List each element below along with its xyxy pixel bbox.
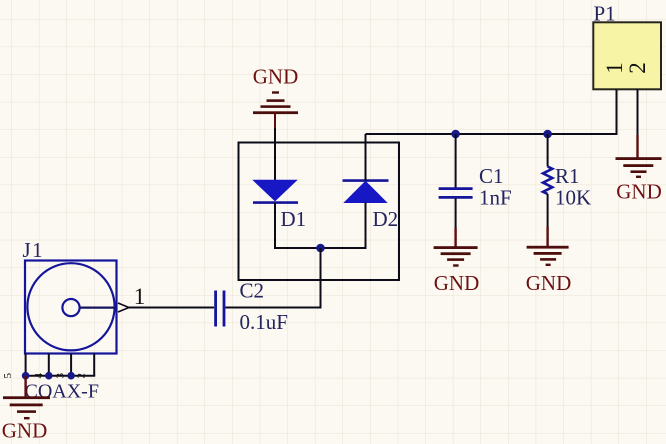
svg-text:C2: C2 <box>240 279 265 303</box>
svg-text:1: 1 <box>134 284 146 309</box>
svg-text:10K: 10K <box>555 185 591 209</box>
junction dot C1 <box>451 130 460 139</box>
svg-text:1nF: 1nF <box>479 185 512 209</box>
wire diode common node (bottom) <box>274 247 367 249</box>
capacitor C2 <box>216 291 224 327</box>
wire C2 to diode node <box>226 307 322 309</box>
capacitor C1 <box>439 134 473 228</box>
diode box outline <box>239 143 400 281</box>
power port GND (P1 pin2) <box>616 135 662 204</box>
wire P1 pin1 <box>616 89 618 135</box>
wire J1 pin1 to C2 <box>129 307 214 309</box>
header P1 body <box>593 22 661 89</box>
diode D2 <box>343 134 389 248</box>
svg-text:D2: D2 <box>373 207 399 231</box>
connector J1 body <box>25 261 117 354</box>
wire output net (D2 cathode to P1) <box>366 133 618 135</box>
power port GND (J1 shield) <box>2 376 50 443</box>
svg-text:2: 2 <box>76 373 88 379</box>
J1 pin 1 arrow <box>118 303 129 312</box>
wire P1 pin2 <box>637 89 639 136</box>
svg-text:3: 3 <box>55 372 67 378</box>
resistor R1 <box>543 134 552 227</box>
svg-text:J1: J1 <box>23 238 45 262</box>
svg-text:4: 4 <box>33 372 45 378</box>
svg-text:GND: GND <box>2 419 48 443</box>
power port GND top (at D1 anode) <box>253 65 299 130</box>
wire shield bus <box>25 375 96 377</box>
power port GND (R1) <box>526 227 572 296</box>
svg-text:D1: D1 <box>281 207 307 231</box>
wire down to C2 net <box>320 248 322 308</box>
junction dot (diode common / C2) <box>316 244 325 253</box>
svg-text:GND: GND <box>616 180 662 204</box>
svg-text:GND: GND <box>526 271 572 295</box>
svg-text:2: 2 <box>625 62 650 74</box>
svg-text:1: 1 <box>602 62 627 74</box>
svg-text:COAX-F: COAX-F <box>25 381 99 403</box>
junction dots shield bus <box>22 372 75 380</box>
power port GND (C1) <box>434 228 480 296</box>
svg-text:GND: GND <box>253 65 299 89</box>
svg-text:5: 5 <box>2 372 14 378</box>
svg-text:0.1uF: 0.1uF <box>240 310 288 334</box>
J1 shield pins <box>26 354 95 376</box>
junction dot R1 <box>543 130 552 139</box>
svg-text:GND: GND <box>434 271 480 295</box>
diode D1 <box>253 180 298 248</box>
wire D1 anode (GND to D1) <box>274 128 276 181</box>
